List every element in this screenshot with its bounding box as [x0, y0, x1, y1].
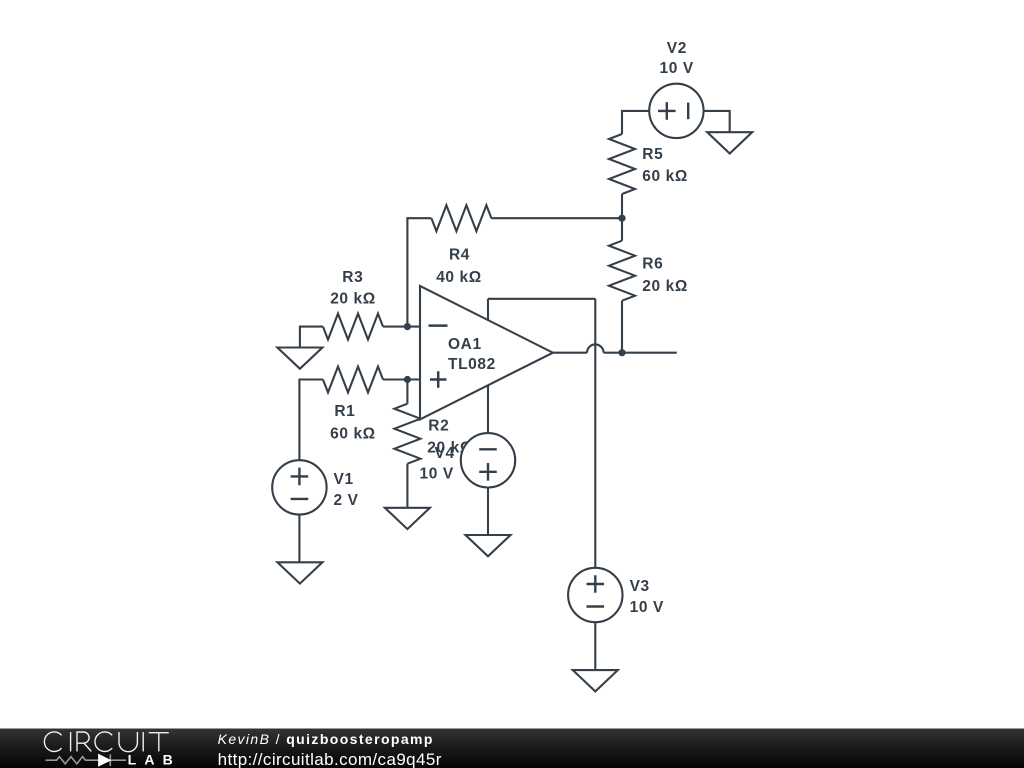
op-amp non-inverting input marker	[430, 371, 447, 387]
wire R6 top	[621, 218, 623, 241]
op-amp inverting input marker	[429, 324, 448, 327]
node junction dot R5/R6	[618, 215, 625, 222]
wire R5 bottom to junction	[621, 194, 623, 218]
wire R4 right to R5/R6 junction	[491, 217, 622, 219]
svg-text:10 V: 10 V	[420, 465, 454, 482]
wire R1 left down to V1	[299, 380, 323, 461]
CircuitLab footer bar	[0, 729, 1024, 768]
resistor R2	[394, 404, 420, 464]
voltage source V1	[272, 460, 326, 514]
resistor R4	[431, 205, 491, 231]
wire R1 right to non-inverting input	[383, 378, 421, 380]
resistor R5	[609, 134, 635, 194]
wire hop over supply rail	[587, 344, 604, 352]
wire V3 bottom to ground	[594, 622, 596, 670]
wire R2 bottom to ground	[406, 464, 408, 508]
ground at R2	[385, 508, 430, 529]
wire R3 right to inverting input	[383, 326, 421, 328]
ground at V2	[707, 132, 752, 153]
resistor R3	[323, 314, 383, 340]
svg-text:40 kΩ: 40 kΩ	[436, 269, 482, 286]
svg-text:R1: R1	[334, 403, 355, 420]
svg-text:R2: R2	[428, 418, 449, 435]
resistor R6	[609, 241, 635, 301]
CircuitLab logo resistor-diode glyph	[46, 754, 127, 766]
wire op-amp output	[553, 352, 677, 354]
svg-text:10 V: 10 V	[630, 599, 664, 616]
wire V4 bottom to ground	[487, 488, 489, 536]
svg-text:10 V: 10 V	[660, 60, 694, 77]
svg-text:20 kΩ: 20 kΩ	[642, 278, 688, 295]
CircuitLab logo CIRCUIT	[44, 732, 168, 752]
resistor R1	[323, 367, 383, 393]
ground at V3	[573, 670, 618, 691]
svg-text:V3: V3	[630, 578, 650, 595]
svg-text:R4: R4	[449, 247, 470, 264]
wire R3 left to ground	[300, 327, 323, 348]
svg-text:OA1: OA1	[448, 336, 482, 353]
svg-text:http://circuitlab.com/ca9q45r: http://circuitlab.com/ca9q45r	[218, 750, 442, 768]
voltage source V4	[461, 433, 515, 487]
svg-text:LAB: LAB	[128, 752, 181, 768]
svg-text:2 V: 2 V	[334, 492, 359, 509]
wire R6 bottom to output node	[621, 301, 623, 353]
svg-text:V1: V1	[334, 471, 354, 488]
svg-text:20 kΩ: 20 kΩ	[330, 291, 376, 308]
wire R2 top	[406, 380, 408, 404]
node junction dot at non-inverting input	[404, 376, 411, 383]
ground at R3	[277, 348, 322, 369]
svg-text:V2: V2	[667, 40, 687, 57]
wire V2 right to ground	[704, 111, 730, 132]
svg-text:TL082: TL082	[448, 356, 496, 373]
voltage source V3	[568, 568, 622, 622]
op-amp OA1 triangle	[420, 286, 553, 420]
wire op-amp V+ supply rail to V3	[488, 299, 595, 569]
ground at V1	[277, 562, 322, 583]
voltage source V2	[649, 84, 703, 138]
svg-text:R3: R3	[342, 269, 363, 286]
node junction dot output/R6	[618, 349, 625, 356]
svg-text:R5: R5	[642, 146, 663, 163]
wire V1 bottom to ground	[298, 515, 300, 563]
svg-text:R6: R6	[642, 256, 663, 273]
svg-text:60 kΩ: 60 kΩ	[330, 425, 376, 442]
svg-text:60 kΩ: 60 kΩ	[642, 168, 688, 185]
svg-text:KevinB / quizboosteropamp: KevinB / quizboosteropamp	[218, 731, 434, 747]
node junction dot at inverting input	[404, 323, 411, 330]
ground at V4	[466, 535, 511, 556]
wire R4 left vertical to inverting node	[407, 218, 431, 326]
svg-text:V4: V4	[435, 445, 455, 462]
wire V2 left terminal down to R5	[622, 111, 649, 134]
